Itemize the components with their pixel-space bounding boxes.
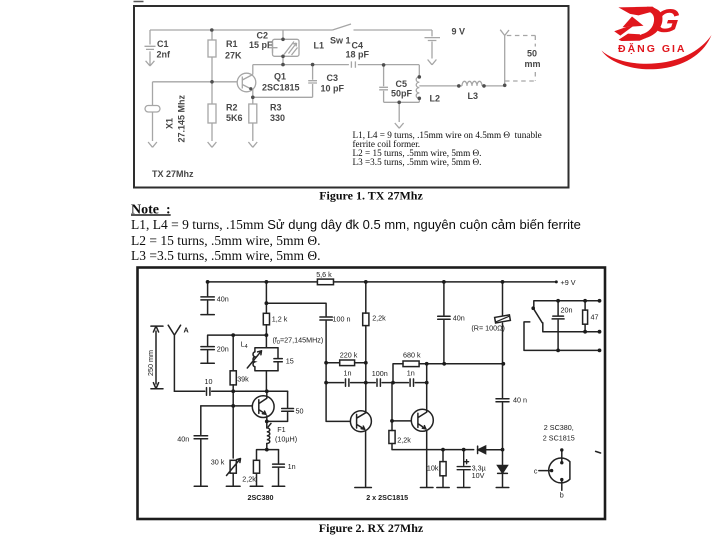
svg-text:+9 V: +9 V (561, 278, 576, 287)
svg-text:40n: 40n (177, 435, 189, 444)
svg-text:5K6: 5K6 (226, 113, 243, 123)
svg-text:G: G (651, 3, 682, 40)
svg-text:220 k: 220 k (340, 351, 358, 360)
svg-text:18 pF: 18 pF (346, 50, 370, 60)
svg-text:40n: 40n (453, 314, 465, 323)
svg-text:50: 50 (527, 49, 537, 59)
svg-text:2nf: 2nf (157, 50, 172, 60)
svg-text:(f0=27,145MHz): (f0=27,145MHz) (273, 336, 324, 347)
svg-text:C3: C3 (327, 73, 339, 83)
svg-text:L3 =3.5 turns, .5mm wire, 5mm: L3 =3.5 turns, .5mm wire, 5mm Θ. (131, 248, 320, 263)
svg-text:1n: 1n (288, 462, 296, 471)
svg-text:39k: 39k (237, 375, 249, 384)
svg-text:2,2k: 2,2k (372, 314, 386, 323)
svg-text:L2 = 15 turns, .5mm wire, 5mm: L2 = 15 turns, .5mm wire, 5mm Θ. (131, 233, 320, 248)
svg-text:1,2 k: 1,2 k (272, 315, 288, 324)
svg-text:Sw 1: Sw 1 (330, 36, 351, 46)
svg-text:30 k: 30 k (211, 458, 225, 467)
svg-text:L3: L3 (468, 91, 479, 101)
svg-text:c: c (534, 467, 538, 476)
svg-text:C5: C5 (396, 79, 408, 89)
svg-text:680 k: 680 k (403, 351, 421, 360)
svg-text:15: 15 (286, 357, 294, 366)
svg-text:10: 10 (205, 377, 213, 386)
svg-text:2 SC1815: 2 SC1815 (543, 434, 575, 443)
svg-text:L1: L1 (314, 41, 325, 51)
svg-text:A: A (184, 326, 189, 335)
svg-text:40 n: 40 n (513, 396, 527, 405)
svg-text:R2: R2 (226, 103, 238, 113)
svg-text:20n: 20n (561, 306, 573, 315)
svg-text:Figure 1. TX 27Mhz: Figure 1. TX 27Mhz (319, 189, 423, 203)
svg-text:9 V: 9 V (452, 27, 466, 37)
svg-text:2,2k: 2,2k (242, 475, 256, 484)
svg-text:Q1: Q1 (274, 72, 286, 82)
svg-text:2,2k: 2,2k (397, 436, 411, 445)
svg-text:2 SC380,: 2 SC380, (544, 423, 574, 432)
svg-text:330: 330 (270, 113, 285, 123)
svg-text:1n: 1n (344, 369, 352, 378)
svg-text:(R= 100Ω): (R= 100Ω) (471, 324, 505, 333)
svg-text:mm: mm (525, 59, 541, 69)
svg-text:L3 =3.5 turns, .5mm wire, 5mm: L3 =3.5 turns, .5mm wire, 5mm Θ. (353, 157, 482, 167)
svg-text:2 x 2SC1815: 2 x 2SC1815 (366, 493, 408, 502)
svg-text:TX 27Mhz: TX 27Mhz (152, 169, 194, 179)
svg-text:L2: L2 (430, 94, 441, 104)
svg-text:50pF: 50pF (391, 89, 413, 99)
svg-text:27K: 27K (225, 51, 242, 61)
svg-text:b: b (560, 491, 564, 500)
svg-text:Note :: Note : (131, 202, 171, 217)
svg-text:20n: 20n (217, 345, 229, 354)
svg-text:ĐẶNG GIA: ĐẶNG GIA (618, 42, 687, 55)
svg-text:Figure 2. RX 27Mhz: Figure 2. RX 27Mhz (319, 521, 424, 535)
svg-text:10V: 10V (472, 471, 485, 480)
svg-text:(10µH): (10µH) (275, 435, 297, 444)
svg-text:47: 47 (591, 313, 599, 322)
svg-text:250 mm: 250 mm (146, 350, 155, 376)
svg-text:100 n: 100 n (333, 315, 351, 324)
svg-text:40n: 40n (217, 295, 229, 304)
svg-text:R1: R1 (226, 39, 238, 49)
svg-text:X1: X1 (165, 118, 175, 129)
svg-text:50: 50 (296, 407, 304, 416)
svg-text:27.145 Mhz: 27.145 Mhz (177, 94, 187, 142)
svg-text:15 pF: 15 pF (249, 40, 273, 50)
svg-text:10k: 10k (427, 464, 439, 473)
svg-text:R3: R3 (270, 103, 282, 113)
svg-text:1n: 1n (407, 369, 415, 378)
svg-text:10 pF: 10 pF (321, 84, 345, 94)
svg-text:2SC1815: 2SC1815 (262, 83, 300, 93)
svg-text:5,6 k: 5,6 k (316, 270, 332, 279)
svg-text:100n: 100n (372, 369, 388, 378)
svg-text:2SC380: 2SC380 (248, 493, 274, 502)
svg-text:C1: C1 (157, 39, 169, 49)
svg-text:C2: C2 (257, 31, 269, 41)
svg-text:L1, L4 = 9 turns, .15mm Sử dụn: L1, L4 = 9 turns, .15mm Sử dụng dây đk 0… (131, 217, 581, 232)
svg-text:F1: F1 (277, 425, 285, 434)
